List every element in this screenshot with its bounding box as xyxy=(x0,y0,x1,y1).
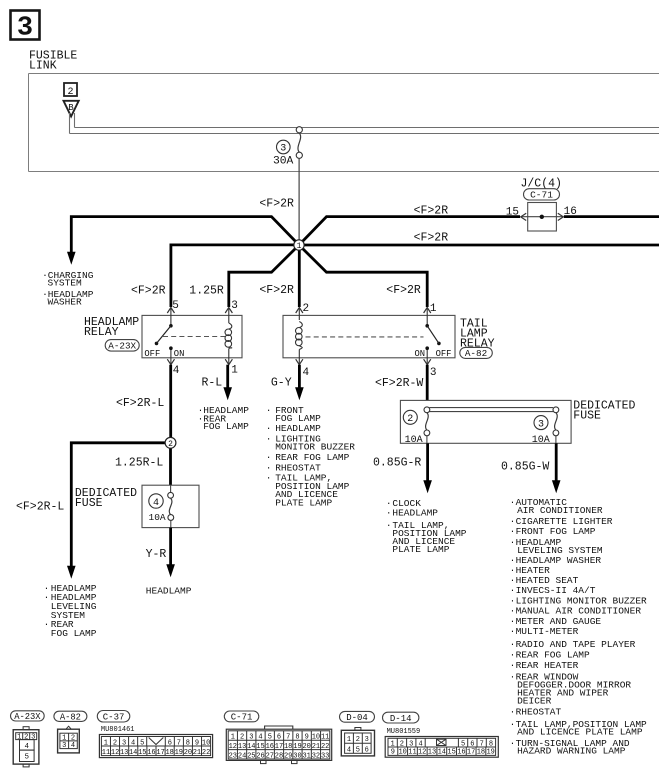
svg-text:C-71: C-71 xyxy=(231,713,253,723)
svg-text:3: 3 xyxy=(365,736,369,744)
connector C-37 part number xyxy=(101,726,135,734)
wire fuse 2 down (0.85G-R) xyxy=(426,443,429,481)
svg-text:·: · xyxy=(510,738,516,749)
svg-text:3: 3 xyxy=(430,367,437,379)
fuse 3 (30A) xyxy=(296,127,302,159)
svg-text:10: 10 xyxy=(398,749,406,757)
svg-text:<F>2R: <F>2R xyxy=(259,198,294,211)
svg-text:R-L: R-L xyxy=(202,376,223,389)
wire J/C(4) to right edge xyxy=(564,215,659,218)
svg-text:21: 21 xyxy=(193,749,201,757)
svg-text:G-Y: G-Y xyxy=(271,376,292,389)
svg-text:3: 3 xyxy=(31,734,35,742)
fuse 2 circled number xyxy=(403,410,417,425)
svg-text:8: 8 xyxy=(186,739,190,747)
svg-text:3: 3 xyxy=(231,300,238,312)
svg-text:·: · xyxy=(510,706,516,717)
arrow G-Y to front fog lamp list xyxy=(295,387,304,400)
svg-text:5: 5 xyxy=(172,300,179,312)
junction connector C-71 stadium xyxy=(524,189,560,201)
svg-text:REAR HEATER: REAR HEATER xyxy=(516,660,579,671)
svg-text:9: 9 xyxy=(391,749,395,757)
svg-text:A-82: A-82 xyxy=(465,348,487,359)
svg-text:3: 3 xyxy=(409,741,413,749)
svg-text:4: 4 xyxy=(173,365,180,377)
svg-text:B: B xyxy=(68,103,74,113)
svg-text:HEADLAMP: HEADLAMP xyxy=(275,423,321,434)
tail lamp relay connector stadium A-82 xyxy=(460,347,493,359)
svg-text:C-71: C-71 xyxy=(530,190,553,201)
svg-text:3: 3 xyxy=(280,144,286,155)
svg-text:1: 1 xyxy=(231,365,238,377)
fuse 3 circled number xyxy=(534,416,548,431)
svg-text:10: 10 xyxy=(202,739,210,747)
svg-text:4: 4 xyxy=(71,742,75,750)
value label (F)2R-L xyxy=(116,397,164,410)
wire from fusible link B (double line) xyxy=(70,113,660,134)
headlamp relay pin 5 arrow xyxy=(167,308,174,326)
svg-text:1: 1 xyxy=(347,736,351,744)
svg-text:<F>2R: <F>2R xyxy=(259,284,294,297)
headlamp relay connector stadium A-23X xyxy=(105,340,139,352)
svg-text:18: 18 xyxy=(165,749,173,757)
svg-text:·: · xyxy=(266,434,272,445)
svg-text:FUSE: FUSE xyxy=(75,497,103,510)
svg-text:SYSTEM: SYSTEM xyxy=(48,278,83,289)
wire node1 down to tail lamp relay pin 2 xyxy=(298,245,301,307)
svg-text:16: 16 xyxy=(147,749,155,757)
svg-text:A-82: A-82 xyxy=(60,713,81,723)
svg-text:D-14: D-14 xyxy=(390,714,412,724)
svg-text:1: 1 xyxy=(231,734,235,742)
arrow 0.85G-R to clock list xyxy=(423,480,432,493)
fuse 3 circled number xyxy=(277,140,291,154)
svg-text:MONITOR BUZZER: MONITOR BUZZER xyxy=(275,441,355,452)
svg-text:12: 12 xyxy=(111,749,119,757)
fuse 3 value 10A xyxy=(532,435,550,446)
svg-text:D-04: D-04 xyxy=(346,713,368,723)
J/C pin 16 arrow xyxy=(558,213,564,220)
svg-text:10: 10 xyxy=(312,734,320,742)
tail lamp relay ON/OFF labels xyxy=(415,349,452,359)
svg-text:<F>2R-W: <F>2R-W xyxy=(375,377,423,390)
svg-text:A-23X: A-23X xyxy=(14,712,41,722)
value label (F)2R above tail relay pin 2 xyxy=(259,284,294,297)
svg-text:18: 18 xyxy=(477,749,485,757)
wire node 2 left branch to headlamp leveling arrow xyxy=(71,443,170,567)
svg-text:16: 16 xyxy=(266,743,274,751)
svg-text:·: · xyxy=(510,526,516,537)
svg-text:·: · xyxy=(510,626,516,637)
svg-text:2: 2 xyxy=(24,734,28,742)
destination list front fog lamp etc xyxy=(266,405,356,508)
value label 0.85G-R xyxy=(373,457,421,470)
svg-text:24: 24 xyxy=(238,752,246,760)
svg-text:25: 25 xyxy=(247,752,255,760)
svg-text:AND LICENCE PLATE LAMP: AND LICENCE PLATE LAMP xyxy=(517,726,643,737)
destination list automatic air conditioner etc xyxy=(510,497,647,757)
value label (F)2R above headlamp relay pin 5 xyxy=(131,285,166,298)
wire headlamp relay pin 4 to node 2 xyxy=(169,365,172,443)
svg-text:29: 29 xyxy=(284,752,292,760)
svg-text:7: 7 xyxy=(480,741,484,749)
svg-text:7: 7 xyxy=(286,734,290,742)
wire fuse 3 to node 1 xyxy=(298,158,300,245)
svg-text:32: 32 xyxy=(312,752,320,760)
svg-text:OFF: OFF xyxy=(144,349,160,359)
svg-text:33: 33 xyxy=(321,752,329,760)
connector A-82 pin map xyxy=(58,726,80,753)
svg-text:17: 17 xyxy=(275,743,283,751)
fusible link B triangle xyxy=(64,101,79,117)
fuse 3 element xyxy=(553,407,559,443)
arrow to headlamp leveling list xyxy=(67,566,76,579)
svg-text:<F>2R-L: <F>2R-L xyxy=(116,397,164,410)
wire node1 right to edge xyxy=(299,244,659,247)
svg-text:·: · xyxy=(510,650,516,661)
fuse bus bar xyxy=(429,408,553,412)
svg-text:·: · xyxy=(510,497,516,508)
svg-text:1.25R-L: 1.25R-L xyxy=(115,457,163,470)
fuse 4 element xyxy=(168,485,174,527)
value label (F)2R-W xyxy=(375,377,423,390)
connector C-37 stadium xyxy=(97,711,130,723)
svg-text:13: 13 xyxy=(428,749,436,757)
fuse 2 element xyxy=(424,407,430,443)
tail lamp relay pin number 2 xyxy=(303,303,310,315)
J/C pin 15 arrow xyxy=(521,213,527,220)
tail lamp relay pin 3 arrow xyxy=(424,348,431,365)
svg-text:10A: 10A xyxy=(405,435,423,446)
svg-text:4: 4 xyxy=(131,739,135,747)
connector D-14 part number xyxy=(387,728,421,736)
svg-text:8: 8 xyxy=(295,734,299,742)
destination list charging system / headlamp washer xyxy=(42,270,94,307)
value label 1.25R above headlamp relay pin 3 xyxy=(189,285,224,298)
wire node1 up-left to charging system arrow xyxy=(71,217,299,253)
tail lamp relay pin 2 arrow xyxy=(296,308,303,321)
svg-text:9: 9 xyxy=(195,739,199,747)
dedicated fuse label (left) xyxy=(75,487,137,510)
connector D-04 stadium xyxy=(340,711,375,723)
svg-text:HEADLAMP: HEADLAMP xyxy=(146,585,192,596)
svg-text:·: · xyxy=(510,537,516,548)
svg-text:4: 4 xyxy=(418,741,422,749)
node 2 junction circle xyxy=(165,437,176,449)
svg-text:1: 1 xyxy=(430,303,437,315)
tail lamp relay pin 1 arrow xyxy=(424,308,431,326)
svg-text:·: · xyxy=(266,405,272,416)
svg-text:10A: 10A xyxy=(149,512,166,523)
headlamp relay label xyxy=(84,316,139,339)
svg-text:3: 3 xyxy=(122,739,126,747)
svg-text:2: 2 xyxy=(407,414,413,425)
svg-text:23: 23 xyxy=(229,752,237,760)
svg-text:2: 2 xyxy=(240,734,244,742)
svg-text:3: 3 xyxy=(17,14,33,44)
svg-text:RADIO AND TAPE PLAYER: RADIO AND TAPE PLAYER xyxy=(516,639,636,650)
svg-text:18: 18 xyxy=(284,743,292,751)
svg-text:14: 14 xyxy=(247,743,255,751)
svg-text:OFF: OFF xyxy=(436,349,452,359)
tail lamp relay U2 box xyxy=(283,315,455,357)
value label G-Y xyxy=(271,376,292,389)
svg-text:4: 4 xyxy=(347,746,351,754)
svg-text:0.85G-W: 0.85G-W xyxy=(501,461,549,474)
tail lamp relay dashed link xyxy=(306,336,424,338)
svg-text:9: 9 xyxy=(305,734,309,742)
svg-text:4: 4 xyxy=(303,367,310,379)
value label Y-R xyxy=(146,548,167,561)
svg-text:19: 19 xyxy=(175,749,183,757)
svg-text:2: 2 xyxy=(356,736,360,744)
fusible link box xyxy=(29,74,660,172)
svg-text:13: 13 xyxy=(238,743,246,751)
svg-text:1: 1 xyxy=(104,739,108,747)
svg-text:ON: ON xyxy=(415,349,426,359)
wire node1 down-left to headlamp relay pin 3 xyxy=(229,245,299,307)
J/C internal wire and node dot xyxy=(521,215,564,219)
svg-text:15: 15 xyxy=(138,749,146,757)
svg-text:20: 20 xyxy=(302,743,310,751)
svg-text:Y-R: Y-R xyxy=(146,548,167,561)
svg-text:12: 12 xyxy=(229,743,237,751)
svg-text:17: 17 xyxy=(467,749,475,757)
value label (F)2R-L left xyxy=(16,501,64,514)
headlamp relay pin number 1 xyxy=(231,365,238,377)
svg-text:26: 26 xyxy=(256,752,264,760)
svg-text:2: 2 xyxy=(113,739,117,747)
svg-text:LINK: LINK xyxy=(29,60,57,73)
connector A-82 stadium xyxy=(54,711,87,722)
svg-text:11: 11 xyxy=(321,734,329,742)
value label R-L xyxy=(202,376,223,389)
label FUSIBLE LINK xyxy=(29,50,77,73)
svg-text:5: 5 xyxy=(25,754,30,762)
wire tail relay pin 3 down to dedicated fuse xyxy=(426,365,429,401)
fuse 4 value 10A xyxy=(149,512,166,523)
value label 0.85G-W xyxy=(501,461,549,474)
wire headlamp relay pin 1 down (R-L) xyxy=(226,365,229,389)
value label 1.25R-L xyxy=(115,457,163,470)
arrow 0.85G-W to automatic air conditioner list xyxy=(552,480,561,493)
connector C-71 pin map xyxy=(226,726,331,764)
wire fuse 3 down (0.85G-W) xyxy=(555,443,558,481)
headlamp relay U1 box xyxy=(142,315,242,357)
tail lamp relay coil xyxy=(296,322,303,350)
svg-text:MULTI-METER: MULTI-METER xyxy=(516,626,579,637)
destination list headlamp / rear fog lamp xyxy=(198,405,250,432)
svg-text:·: · xyxy=(510,639,516,650)
svg-text:<F>2R: <F>2R xyxy=(131,285,166,298)
svg-text:·: · xyxy=(510,671,516,682)
svg-text:4: 4 xyxy=(25,743,30,751)
tail lamp relay switch xyxy=(425,324,440,350)
svg-text:28: 28 xyxy=(275,752,283,760)
svg-text:15: 15 xyxy=(256,743,264,751)
svg-text:22: 22 xyxy=(202,749,210,757)
svg-text:21: 21 xyxy=(312,743,320,751)
wire node1 left then down to headlamp relay pin 5 xyxy=(171,245,299,307)
svg-text:10A: 10A xyxy=(532,435,550,446)
page number box 3 xyxy=(11,11,40,44)
svg-text:FUSE: FUSE xyxy=(573,409,601,422)
svg-text:27: 27 xyxy=(266,752,274,760)
connector D-14 pin map xyxy=(385,737,498,758)
svg-text:·: · xyxy=(386,508,392,519)
svg-text:·: · xyxy=(44,619,50,630)
connector A-23X pin map xyxy=(13,727,39,767)
svg-text:11: 11 xyxy=(408,749,416,757)
svg-text:AIR CONDITIONER: AIR CONDITIONER xyxy=(517,505,603,516)
svg-text:PLATE LAMP: PLATE LAMP xyxy=(275,497,332,508)
svg-text:C-37: C-37 xyxy=(103,712,125,722)
svg-text:3: 3 xyxy=(538,419,544,430)
fusible link terminal marker box 2 xyxy=(64,83,77,98)
connector D-14 stadium xyxy=(383,712,419,724)
svg-text:20: 20 xyxy=(184,749,192,757)
connector A-23X stadium xyxy=(11,711,45,722)
svg-text:·: · xyxy=(266,423,272,434)
fuse 2 value 10A xyxy=(405,435,423,446)
svg-text:FRONT FOG LAMP: FRONT FOG LAMP xyxy=(516,526,596,537)
J/C pin 15 label xyxy=(506,207,519,219)
svg-text:14: 14 xyxy=(129,749,137,757)
wire node1 up-right through J/C(4) xyxy=(299,217,520,245)
svg-text:6: 6 xyxy=(470,741,474,749)
svg-text:1: 1 xyxy=(297,242,302,251)
value label (F)2R upper-left xyxy=(259,198,294,211)
value label (F)2R on J/C wire xyxy=(414,204,449,217)
headlamp relay pin 1 arrow xyxy=(225,352,232,365)
svg-text:12: 12 xyxy=(418,749,426,757)
svg-text:<F>2R: <F>2R xyxy=(414,204,449,217)
svg-text:FOG LAMP: FOG LAMP xyxy=(51,628,97,639)
headlamp relay pin 3 arrow xyxy=(225,308,232,319)
tail lamp relay pin number 3 xyxy=(430,367,437,379)
svg-text:<F>2R: <F>2R xyxy=(386,284,421,297)
svg-text:PLATE LAMP: PLATE LAMP xyxy=(392,544,449,555)
svg-text:3: 3 xyxy=(62,742,66,750)
svg-text:MU801461: MU801461 xyxy=(101,726,135,734)
wire fuse 4 down (Y-R) xyxy=(169,528,172,566)
value label (F)2R on right wire xyxy=(414,232,449,245)
tail lamp relay label xyxy=(460,318,495,351)
svg-text:<F>2R: <F>2R xyxy=(414,232,449,245)
connector D-04 pin map xyxy=(341,728,374,756)
headlamp relay pin number 5 xyxy=(172,300,179,312)
svg-text:ON: ON xyxy=(174,349,185,359)
svg-text:6: 6 xyxy=(277,734,281,742)
wire node 2 down to dedicated fuse 4 xyxy=(169,443,172,485)
svg-text:0.85G-R: 0.85G-R xyxy=(373,457,421,470)
arrow to charging system xyxy=(67,252,76,265)
svg-text:MU801559: MU801559 xyxy=(387,728,421,736)
svg-text:1: 1 xyxy=(390,741,394,749)
svg-text:·: · xyxy=(510,585,516,596)
dedicated fuse 4 box xyxy=(142,485,199,527)
svg-text:4: 4 xyxy=(153,498,159,509)
svg-text:1.25R: 1.25R xyxy=(189,285,224,298)
svg-text:5: 5 xyxy=(461,741,465,749)
svg-text:6: 6 xyxy=(365,746,369,754)
headlamp relay dashed link xyxy=(163,336,225,338)
svg-text:30A: 30A xyxy=(273,155,294,167)
junction connector J/C box xyxy=(528,203,557,232)
wire tail relay pin 4 down (G-Y) xyxy=(298,365,301,389)
svg-text:2: 2 xyxy=(400,741,404,749)
svg-text:3: 3 xyxy=(249,734,253,742)
svg-text:31: 31 xyxy=(302,752,310,760)
fuse 4 circled number xyxy=(149,494,163,509)
svg-text:·: · xyxy=(386,520,392,531)
headlamp relay pin number 3 xyxy=(231,300,238,312)
svg-text:16: 16 xyxy=(457,749,465,757)
dedicated fuse box (fuses 2 and 3) xyxy=(400,400,571,443)
svg-text:14: 14 xyxy=(438,749,446,757)
svg-text:13: 13 xyxy=(120,749,128,757)
headlamp relay pin number 4 xyxy=(173,365,180,377)
svg-text:A-23X: A-23X xyxy=(108,341,136,352)
svg-text:HAZARD WARNING LAMP: HAZARD WARNING LAMP xyxy=(517,746,626,757)
headlamp relay OFF/ON labels xyxy=(144,349,184,359)
svg-text:1: 1 xyxy=(17,734,21,742)
svg-text:22: 22 xyxy=(321,743,329,751)
arrow R-L to headlamp / rear fog lamp xyxy=(223,387,232,400)
svg-text:·: · xyxy=(510,660,516,671)
svg-text:5: 5 xyxy=(268,734,272,742)
svg-text:DEICER: DEICER xyxy=(517,695,552,706)
svg-text:30: 30 xyxy=(293,752,301,760)
svg-text:4: 4 xyxy=(258,734,262,742)
svg-text:RHEOSTAT: RHEOSTAT xyxy=(516,706,562,717)
svg-text:19: 19 xyxy=(293,743,301,751)
headlamp relay pin 4 arrow xyxy=(167,348,174,365)
svg-text:5: 5 xyxy=(356,746,360,754)
connector C-37 pin map xyxy=(99,735,212,758)
svg-text:INVECS-II 4A/T: INVECS-II 4A/T xyxy=(516,585,596,596)
svg-text:·: · xyxy=(44,592,50,603)
svg-text:REAR FOG LAMP: REAR FOG LAMP xyxy=(516,650,590,661)
svg-text:11: 11 xyxy=(102,749,110,757)
svg-text:2: 2 xyxy=(303,303,310,315)
destination label HEADLAMP xyxy=(146,585,192,596)
tail lamp relay pin number 4 xyxy=(303,367,310,379)
tail lamp relay pin number 1 xyxy=(430,303,437,315)
svg-text:6: 6 xyxy=(168,739,172,747)
svg-text:<F>2R-L: <F>2R-L xyxy=(16,501,64,514)
svg-text:8: 8 xyxy=(489,741,493,749)
destination list headlamp leveling system rear fog lamp xyxy=(44,583,97,639)
destination list clock headlamp tail lamp xyxy=(386,498,467,555)
tail lamp relay pin 4 arrow xyxy=(296,350,303,365)
svg-text:RELAY: RELAY xyxy=(84,326,119,339)
svg-text:·: · xyxy=(510,719,516,730)
svg-text:2: 2 xyxy=(67,87,73,98)
fuse 3 value 30A xyxy=(273,155,294,167)
dedicated fuse label (right) xyxy=(573,400,635,423)
svg-text:17: 17 xyxy=(156,749,164,757)
svg-text:FOG LAMP: FOG LAMP xyxy=(203,421,249,432)
junction connector J/C(4) label xyxy=(521,177,562,190)
svg-text:2: 2 xyxy=(168,440,173,449)
svg-text:7: 7 xyxy=(177,739,181,747)
arrow Y-R to headlamp xyxy=(166,564,175,577)
J/C pin 16 label xyxy=(564,206,577,218)
node 1 junction circle xyxy=(294,240,304,251)
headlamp relay switch xyxy=(155,324,173,350)
connector C-71 stadium xyxy=(224,711,258,723)
